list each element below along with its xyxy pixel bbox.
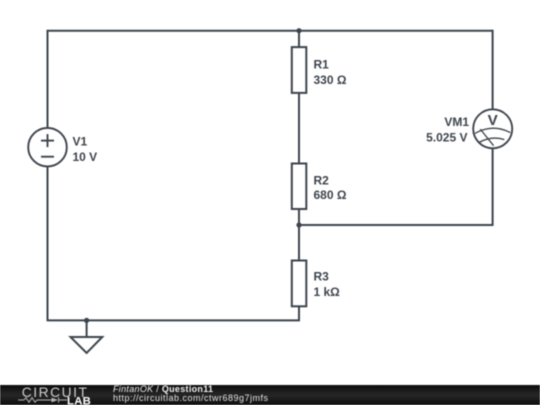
node junction top (R1/V1/VM1 net) [296, 28, 301, 33]
wire mid horizontal to voltmeter [299, 224, 493, 226]
svg-text:R2: R2 [314, 173, 330, 187]
logo diode triangle [52, 397, 59, 402]
voltmeter VM1 symbol [473, 109, 512, 148]
svg-text:V: V [488, 112, 499, 129]
svg-text:VM1: VM1 [444, 115, 469, 129]
wire R2 to R1 [298, 93, 300, 164]
node junction ground net [84, 318, 89, 323]
wire voltmeter top vertical [492, 30, 494, 110]
svg-text:330 Ω: 330 Ω [314, 73, 347, 87]
node junction mid (R2/R3/VM1 net) [296, 222, 301, 227]
wire R3 to mid node [298, 225, 300, 261]
wire left vertical upper [47, 30, 49, 128]
wire bottom horizontal [47, 319, 299, 321]
svg-text:1 kΩ: 1 kΩ [314, 285, 341, 299]
footer bar [0, 385, 540, 405]
resistor R3 [292, 261, 307, 307]
logo wire with resistor and diode [18, 397, 67, 402]
svg-text:5.025 V: 5.025 V [426, 131, 467, 145]
wire R3 bottom stub [298, 306, 300, 321]
CircuitLab logo [0, 385, 100, 405]
svg-text:10 V: 10 V [73, 150, 98, 164]
resistor R1 [292, 47, 307, 93]
resistor R2 [292, 164, 307, 210]
wire left vertical lower [47, 167, 49, 321]
svg-text:V1: V1 [73, 135, 88, 149]
wire voltmeter bottom vertical [492, 148, 494, 226]
wire R1 top stub [298, 31, 300, 47]
wire top horizontal [48, 30, 493, 32]
voltage source V1 symbol [28, 128, 67, 167]
svg-text:680 Ω: 680 Ω [314, 188, 347, 202]
ground symbol [71, 337, 103, 353]
wire R2 bottom stub [298, 209, 300, 225]
svg-text:R1: R1 [314, 58, 330, 72]
svg-text:R3: R3 [314, 270, 330, 284]
svg-text:LAB: LAB [67, 395, 91, 405]
wire ground stem [86, 320, 88, 337]
credit text [113, 385, 433, 405]
